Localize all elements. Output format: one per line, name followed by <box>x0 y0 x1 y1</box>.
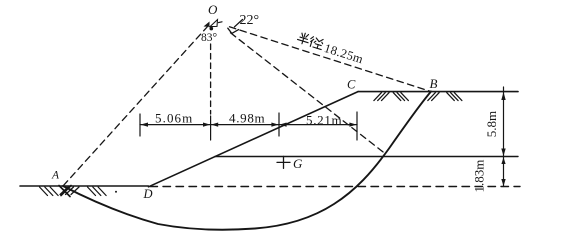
svg-text:D: D <box>143 187 153 201</box>
dim arrows <box>140 123 356 127</box>
slope face D to C <box>149 92 359 187</box>
svg-text:83°: 83° <box>201 32 218 44</box>
svg-text:1.83m: 1.83m <box>472 160 487 193</box>
node O <box>204 2 223 30</box>
G level line <box>215 156 518 158</box>
svg-text:B: B <box>430 76 438 91</box>
O center marker: right open arrowhead <box>210 20 218 27</box>
tick 2 <box>210 116 212 140</box>
speck <box>115 191 117 193</box>
svg-text:A: A <box>51 170 60 182</box>
dimension line horizontal <box>140 124 357 126</box>
wire: dashed vertical from O to dimension line <box>210 44 212 114</box>
hatch group top 4 <box>447 93 462 101</box>
hatch group left 2 (under A) <box>60 187 79 195</box>
hatch group top 1 <box>374 93 389 101</box>
wire: dashed radius O to A <box>63 26 208 186</box>
svg-text:O: O <box>208 2 218 17</box>
CJK char BAN (half) drawn as strokes <box>297 32 311 46</box>
right dimension vertical <box>503 87 505 187</box>
hatch group top 3 (right of B) <box>428 93 439 101</box>
svg-text:4.98m: 4.98m <box>229 111 265 126</box>
svg-text:5.8m: 5.8m <box>484 111 499 137</box>
CJK char JING (diameter) drawn as strokes <box>309 36 325 50</box>
ground line lower left <box>20 185 149 187</box>
hatch group left 3 <box>88 187 107 196</box>
label radius 18.25m (rotated) <box>296 32 366 67</box>
wire: dashed radius O to B <box>230 27 432 92</box>
hatch group left 1 <box>40 187 59 196</box>
dashed ground level extension from D <box>150 186 520 188</box>
22deg vertex arrowhead <box>228 28 239 33</box>
O center dot <box>210 27 214 31</box>
dark cluster at A <box>59 186 71 197</box>
svg-text:C: C <box>347 78 356 92</box>
svg-text:5.06m: 5.06m <box>155 111 193 126</box>
tick 4 <box>356 112 358 140</box>
tick 3 <box>278 113 280 136</box>
wire: dashed radius O to slip surface <box>231 33 386 154</box>
O center marker: small dash right <box>219 21 223 24</box>
22deg vertex tick mark <box>235 20 243 27</box>
ground line upper (C to right) <box>358 91 518 93</box>
hatch group top 2 <box>393 93 408 101</box>
right dim arrows <box>501 92 505 186</box>
tick 1 <box>139 114 141 136</box>
slip circle arc A to B <box>63 92 431 230</box>
svg-text:5.21m: 5.21m <box>306 113 342 128</box>
O center marker: left filled arrowhead <box>204 22 210 27</box>
svg-text:22°: 22° <box>240 13 260 28</box>
svg-text:G: G <box>293 156 303 171</box>
svg-text:18.25m: 18.25m <box>323 41 366 66</box>
node G marker <box>277 156 290 168</box>
